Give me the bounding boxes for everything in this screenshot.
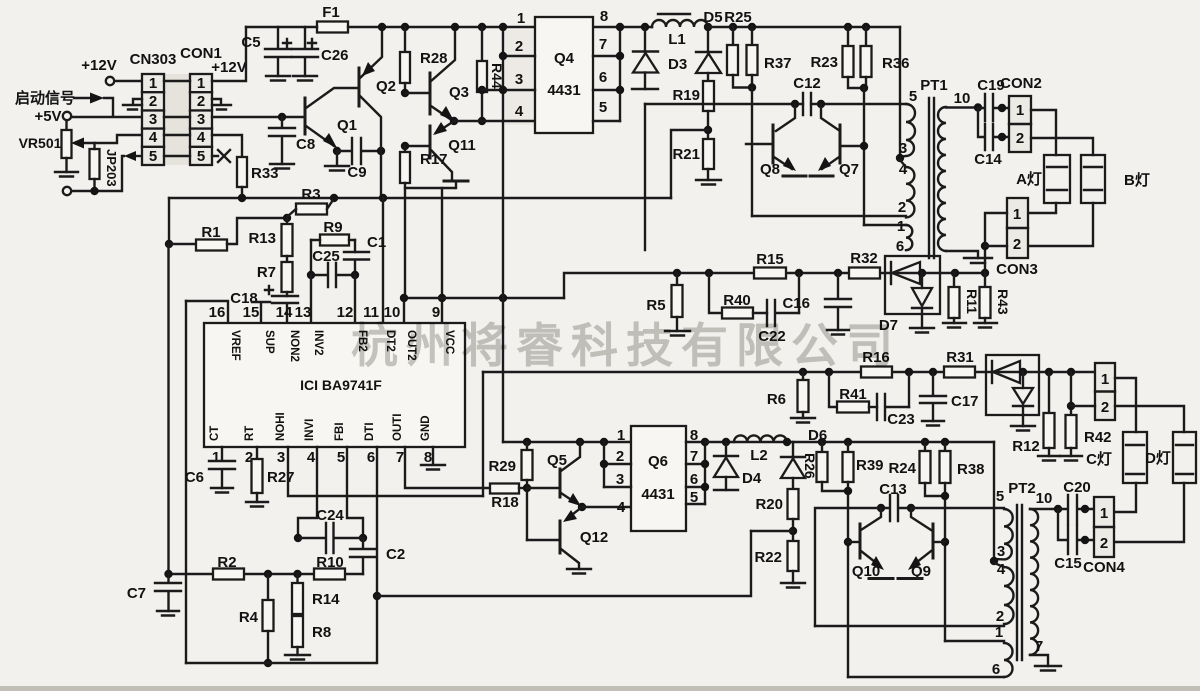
transistor Q1: [304, 98, 307, 134]
lamp B灯: [1081, 155, 1105, 203]
svg-text:7: 7: [599, 36, 607, 53]
ground Q1 emitter: [325, 151, 349, 171]
svg-text:R8: R8: [312, 624, 331, 641]
wire lamp D to CON4 pin2: [1114, 483, 1184, 542]
resistor JP203: [90, 149, 100, 179]
wire NOHI pin3 to channel2 feedback: [288, 447, 483, 496]
wire DTI pin6 riser: [376, 447, 378, 596]
ground PT2 secondary: [1035, 666, 1061, 671]
svg-text:R4: R4: [239, 609, 259, 626]
svg-text:C14: C14: [974, 151, 1002, 168]
wire lamp B to CON3 pin2: [1028, 203, 1093, 246]
svg-text:C9: C9: [347, 164, 366, 181]
svg-text:6: 6: [992, 661, 1000, 678]
ground C5: [266, 76, 290, 81]
svg-text:R37: R37: [764, 55, 792, 72]
svg-text:2: 2: [1016, 130, 1024, 147]
svg-text:INVI: INVI: [304, 419, 316, 441]
junction R26/R39 bottom: [844, 487, 852, 495]
wire C13 line left corner to PT2 pin2: [815, 508, 881, 626]
svg-text:R5: R5: [646, 297, 665, 314]
svg-text:5: 5: [996, 488, 1004, 505]
ground R5: [665, 331, 690, 336]
connector CON4: [1094, 497, 1114, 557]
terminal circle bottom: [63, 187, 71, 195]
svg-text:NOHI: NOHI: [275, 412, 287, 441]
resistor R36: [862, 23, 870, 31]
wire connector pin1 to lamp C: [1115, 378, 1136, 432]
junction Q10 base node: [844, 538, 852, 546]
svg-text:7: 7: [1035, 638, 1043, 655]
svg-text:3: 3: [277, 449, 285, 466]
svg-text:2: 2: [616, 448, 624, 465]
ground R27: [246, 502, 268, 507]
svg-text:5: 5: [197, 148, 205, 165]
capacitor C8: [278, 113, 286, 121]
resistor R42: [1067, 368, 1075, 376]
svg-text:4: 4: [515, 103, 524, 120]
svg-text:C6: C6: [185, 469, 204, 486]
junction Q2 emitter on rail: [378, 23, 386, 31]
wire R1 node down to C7: [167, 244, 169, 574]
svg-text:4: 4: [149, 129, 158, 146]
resistor R40: [709, 273, 722, 313]
inductor L1: [658, 13, 690, 15]
svg-text:R43: R43: [995, 289, 1011, 315]
ground C17: [922, 421, 944, 426]
resistor R19: [703, 81, 714, 111]
PT2 core: [1017, 505, 1022, 660]
svg-text:Q5: Q5: [547, 452, 567, 469]
svg-text:C15: C15: [1054, 555, 1082, 572]
wire connector pin2 left: [1071, 405, 1095, 407]
svg-text:B灯: B灯: [1124, 172, 1150, 189]
svg-text:R36: R36: [882, 55, 910, 72]
svg-text:R32: R32: [850, 250, 878, 267]
wire Q3 base: [405, 92, 430, 94]
diode pair channel2: [986, 355, 1039, 415]
wire Q2 collector to DT2 pin11: [380, 151, 382, 198]
svg-text:C26: C26: [321, 47, 349, 64]
svg-text:2: 2: [898, 199, 906, 216]
svg-text:VR501: VR501: [19, 135, 62, 151]
capacitor C22: [767, 300, 799, 326]
svg-text:C1: C1: [367, 234, 386, 251]
wire Q6 right riser: [704, 442, 706, 504]
transistor Q11: [429, 126, 432, 158]
wire left vertical x186: [185, 301, 187, 663]
diode D3: [641, 23, 649, 31]
svg-text:NON2: NON2: [288, 330, 300, 362]
svg-text:C12: C12: [793, 75, 821, 92]
diode pair D7: [885, 256, 940, 314]
svg-text:R18: R18: [491, 494, 519, 511]
node Q9 emitter bar: [898, 577, 922, 580]
wire PT2 pin6 line: [848, 676, 1004, 678]
svg-text:R23: R23: [810, 54, 838, 71]
svg-text:6: 6: [367, 449, 375, 466]
svg-text:启动信号: 启动信号: [15, 89, 75, 107]
svg-text:CN303: CN303: [130, 51, 177, 68]
svg-text:1: 1: [1013, 206, 1021, 223]
wire PT2 pin1 line: [945, 640, 1004, 642]
wire DT2 feedback line y198: [169, 197, 671, 199]
node PT2 tap 3/4: [990, 557, 998, 565]
inductor L2: [734, 435, 787, 442]
wire PT1 pin2 line: [752, 215, 906, 217]
svg-text:R14: R14: [312, 591, 340, 608]
junction Q5 emitter / pin4: [578, 503, 586, 511]
svg-text:5: 5: [337, 449, 345, 466]
svg-text:R1: R1: [201, 224, 220, 241]
svg-text:3: 3: [515, 71, 523, 88]
svg-text:Q2: Q2: [376, 78, 396, 95]
PT1 core: [929, 98, 934, 258]
wire rail L1 to PT1: [708, 26, 900, 28]
svg-text:R12: R12: [1012, 438, 1040, 455]
ground D3: [632, 88, 658, 90]
wire Q6 pin4 line: [582, 506, 631, 508]
resistor R39: [844, 438, 852, 446]
svg-text:ICI BA9741F: ICI BA9741F: [300, 377, 382, 393]
transistor Q2: [358, 68, 361, 106]
ground R8: [285, 655, 310, 660]
ground D7: [910, 328, 934, 333]
svg-text:2: 2: [996, 608, 1004, 625]
svg-text:F1: F1: [322, 4, 340, 21]
wire R17 bottom to OUT2 pin10: [404, 183, 405, 323]
svg-text:R6: R6: [767, 391, 786, 408]
wire CON1 pin1 to F1 rail: [212, 27, 246, 81]
junction R28 bottom / Q3 base: [401, 89, 409, 97]
transistor Q12: [559, 521, 562, 553]
svg-text:SUP: SUP: [263, 330, 275, 354]
capacitor C14: [978, 108, 1009, 150]
wire rail to PT2 center tap: [993, 442, 995, 561]
wire FBI pin5 to C24 right: [347, 447, 363, 538]
capacitor C23: [877, 394, 909, 420]
resistor R33: [237, 157, 247, 187]
svg-text:R25: R25: [724, 9, 752, 26]
svg-text:C13: C13: [879, 481, 907, 498]
resistor R44: [478, 23, 486, 31]
ground R43: [974, 323, 997, 328]
svg-text:R17: R17: [420, 151, 448, 168]
wire +12V top rail F1 to Q4: [348, 26, 535, 28]
svg-text:R20: R20: [755, 496, 783, 513]
svg-text:R31: R31: [946, 349, 974, 366]
resistor R29: [526, 442, 528, 450]
wire CON2 pin2 to lamp B: [1031, 138, 1093, 155]
svg-text:JP203: JP203: [104, 149, 119, 187]
wire VR501 wiper from CN303 pin4: [82, 135, 142, 143]
resistor R22: [788, 541, 799, 571]
wire FB2 pin12 riser: [354, 275, 356, 323]
wire rail corner to PT1 center tap: [899, 27, 901, 158]
svg-text:Q7: Q7: [839, 161, 859, 178]
resistor R14: [296, 574, 298, 583]
svg-text:L1: L1: [668, 31, 686, 48]
svg-text:R39: R39: [856, 457, 884, 474]
ground D4: [714, 489, 738, 491]
wire bottom terminal to CN303 pin5: [71, 156, 124, 191]
svg-text:R28: R28: [420, 50, 448, 67]
resistor R18: [490, 484, 519, 494]
wire start-signal arrow: [74, 97, 92, 99]
svg-text:3: 3: [197, 111, 205, 128]
svg-text:2: 2: [515, 38, 523, 55]
wire R23/R36 node down to Q7 base and PT1 pin2: [863, 88, 865, 225]
wire +5V to CN303 pin3: [71, 116, 142, 118]
svg-text:Q4: Q4: [554, 50, 575, 67]
transistor Q7: [839, 125, 842, 163]
PT2 secondary winding: [1030, 509, 1038, 655]
wire CON1 pin3 to Q1 base: [212, 116, 305, 118]
connector CON3: [1007, 198, 1028, 258]
wire OUTI pin7 to R18: [405, 447, 490, 488]
wire DT2 pin11 riser: [382, 198, 384, 323]
IC Q6 4431: [631, 426, 686, 531]
junction R1 left node: [165, 240, 173, 248]
svg-text:Q6: Q6: [648, 453, 668, 470]
wire C12 collector line to PT1 pin5: [645, 103, 906, 105]
svg-text:R7: R7: [257, 264, 276, 281]
svg-text:2: 2: [197, 93, 205, 110]
resistor R28: [401, 23, 409, 31]
svg-text:4431: 4431: [641, 486, 674, 503]
svg-text:CON3: CON3: [996, 261, 1038, 278]
resistor R13: [286, 218, 288, 224]
junction JP203 bottom: [90, 187, 98, 195]
svg-text:OUTI: OUTI: [392, 414, 404, 441]
svg-text:R38: R38: [957, 461, 985, 478]
svg-text:杭州将睿科技有限公司: 杭州将睿科技有限公司: [351, 319, 901, 372]
capacitor C6: [209, 447, 235, 488]
resistor R38: [941, 438, 949, 446]
node Q10 emitter bar: [869, 577, 893, 580]
svg-text:1: 1: [617, 427, 625, 444]
svg-text:1: 1: [212, 449, 220, 466]
svg-text:R27: R27: [267, 469, 295, 486]
ground R11: [943, 323, 966, 328]
svg-text:7: 7: [396, 449, 404, 466]
ground CON1 pin2: [212, 99, 231, 110]
svg-text:R21: R21: [672, 146, 700, 163]
svg-text:+12V: +12V: [81, 57, 116, 74]
svg-text:8: 8: [600, 8, 608, 25]
svg-text:C8: C8: [296, 136, 315, 153]
wire Q11 emitter link: [405, 187, 455, 189]
svg-text:+5V: +5V: [34, 108, 61, 125]
wire ground rail bottom: [186, 596, 377, 663]
wire Q6 pins2-3 riser: [603, 442, 605, 487]
wire lamp C to CON4 pin1: [1114, 483, 1136, 512]
capacitor C17: [920, 372, 946, 421]
svg-text:4431: 4431: [547, 82, 580, 99]
ground R42: [1060, 456, 1082, 461]
svg-text:C灯: C灯: [1086, 451, 1112, 468]
wire DTI line y596 to R20/R22: [377, 531, 751, 596]
svg-text:R3: R3: [301, 186, 320, 203]
wire Q4 pin4 line: [454, 120, 535, 122]
wire CON3 left riser to sense line: [985, 213, 1007, 273]
ground C8: [270, 164, 294, 169]
wire R25/R37 node to PT1 pin1: [751, 88, 753, 217]
junction R29/R18/Q5 base: [523, 484, 531, 492]
svg-text:R19: R19: [672, 87, 700, 104]
svg-text:15: 15: [243, 304, 260, 321]
ground diode pair 2: [1011, 426, 1035, 431]
svg-text:16: 16: [209, 304, 226, 321]
diode D6: [783, 438, 791, 446]
svg-text:DTI: DTI: [364, 422, 376, 441]
transistor Q10: [859, 524, 862, 558]
svg-text:C23: C23: [887, 411, 915, 428]
wire Q6 supply rail y443: [503, 441, 631, 443]
ground R12: [1038, 456, 1060, 461]
wire CN303-CON1 row1: [164, 80, 190, 82]
svg-text:14: 14: [276, 304, 293, 321]
wire INV2 pin13 riser: [310, 275, 312, 323]
svg-text:3: 3: [997, 543, 1005, 560]
node PT1 tap 3/4: [896, 154, 904, 162]
svg-text:C5: C5: [241, 34, 260, 51]
svg-text:D3: D3: [668, 56, 687, 73]
svg-text:C17: C17: [951, 393, 979, 410]
svg-text:8: 8: [424, 449, 432, 466]
ground R6: [791, 418, 815, 423]
ground C16: [827, 330, 849, 335]
PT2 primary winding 4-2: [1004, 567, 1014, 624]
svg-text:1: 1: [1101, 371, 1109, 388]
wire +12V top rail Q4 to PT1: [593, 26, 652, 28]
resistor R12: [1045, 368, 1053, 376]
wire channel2 rail y443: [705, 441, 994, 443]
svg-text:CT: CT: [209, 426, 221, 441]
PT1 secondary winding: [938, 107, 946, 251]
wire INVI pin4 to C24: [298, 447, 317, 538]
junction R23/R36 bottom: [860, 84, 868, 92]
svg-text:6: 6: [599, 69, 607, 86]
junction R19/R21 feedback node: [704, 126, 712, 134]
node Q11 emitter bar: [444, 180, 468, 183]
svg-text:5: 5: [599, 99, 607, 116]
transistor Q8: [772, 125, 775, 163]
svg-text:C7: C7: [127, 585, 146, 602]
transistor Q5: [559, 469, 562, 497]
svg-text:C20: C20: [1063, 479, 1091, 496]
junction R20/R22/DTI: [789, 527, 797, 535]
junction Q3 emitter node: [450, 117, 458, 125]
svg-text:Q3: Q3: [449, 84, 469, 101]
svg-text:1: 1: [149, 75, 157, 92]
svg-text:7: 7: [690, 448, 698, 465]
wire C13 line to PT1 pin5 right: [911, 507, 1004, 509]
wire +12V rail left of F1: [246, 26, 317, 28]
svg-text:GND: GND: [420, 415, 432, 441]
svg-text:3: 3: [149, 111, 157, 128]
resistor R23: [844, 23, 852, 31]
svg-text:R24: R24: [888, 460, 916, 477]
svg-text:3: 3: [899, 140, 907, 157]
resistor R24: [921, 438, 929, 446]
wire channel2 feedback line y372: [483, 371, 1095, 373]
svg-text:2: 2: [1013, 236, 1021, 253]
svg-text:6: 6: [690, 471, 698, 488]
wire CN303-CON1 row5: [164, 155, 190, 157]
junction Q9 base node: [941, 538, 949, 546]
svg-text:C16: C16: [782, 295, 810, 312]
pin 15 SUP stub: [252, 302, 270, 323]
svg-text:1: 1: [995, 624, 1003, 641]
ground C6: [211, 488, 233, 493]
wire VCC horizontal y298: [404, 297, 564, 299]
ground PT1 secondary: [964, 258, 992, 263]
svg-text:10: 10: [1036, 490, 1053, 507]
svg-text:D灯: D灯: [1145, 450, 1171, 467]
resistor R7: [282, 262, 293, 292]
wire left loop to PT1 pin6: [644, 104, 646, 250]
wire Q4 pins 5-8 riser: [619, 27, 621, 121]
svg-text:5: 5: [909, 88, 917, 105]
wire supply riser x503 rail to Q6: [502, 27, 504, 442]
wire CON2 pin1 to lamp A: [1031, 110, 1056, 155]
svg-text:4: 4: [617, 499, 626, 516]
ground R22: [781, 583, 805, 588]
svg-text:Q1: Q1: [337, 117, 357, 134]
svg-text:INV2: INV2: [312, 330, 324, 356]
IC1 BA9741F: [204, 323, 465, 447]
svg-text:C24: C24: [316, 507, 344, 524]
resistor R26: [818, 438, 826, 446]
capacitor C15: [1058, 509, 1094, 554]
wire lamp A to CON3 pin1: [1028, 203, 1056, 213]
resistor R20: [788, 489, 799, 519]
ground Q12: [567, 569, 591, 574]
resistor R17: [404, 146, 406, 152]
svg-text:2: 2: [1100, 535, 1108, 552]
connector CD lamps: [1095, 363, 1115, 420]
node Q7 emitter bar: [810, 175, 833, 178]
junction R25/R37 bottom: [748, 83, 756, 91]
wire feedback node to DT2 line: [671, 130, 708, 198]
wire R2 line y574: [169, 573, 364, 575]
svg-text:C2: C2: [386, 546, 405, 563]
ground R21: [696, 180, 721, 185]
wire PT2 pin2 line: [815, 625, 1004, 627]
transistor Q9: [932, 524, 935, 558]
svg-text:Q12: Q12: [580, 529, 608, 546]
PT1 primary winding 4-2: [900, 160, 914, 217]
svg-text:Q11: Q11: [448, 137, 476, 154]
resistor R27: [256, 447, 258, 459]
capacitor C9: [333, 147, 341, 155]
wire feedback line y273: [564, 273, 985, 298]
svg-text:CON2: CON2: [1000, 75, 1042, 92]
svg-text:L2: L2: [750, 447, 768, 464]
terminal circle +12V: [106, 77, 114, 85]
IC Q4 4431: [535, 17, 593, 133]
wire +12V terminal to CN303 pin1: [114, 80, 142, 82]
svg-text:CON4: CON4: [1083, 559, 1125, 576]
svg-text:6: 6: [896, 238, 904, 255]
svg-text:1: 1: [197, 75, 205, 92]
terminal circle +5V: [63, 112, 71, 120]
wire CON1 pin4 to R33: [212, 135, 242, 157]
svg-text:1: 1: [897, 218, 905, 235]
svg-text:1: 1: [1100, 505, 1108, 522]
resistor R41: [829, 372, 837, 407]
